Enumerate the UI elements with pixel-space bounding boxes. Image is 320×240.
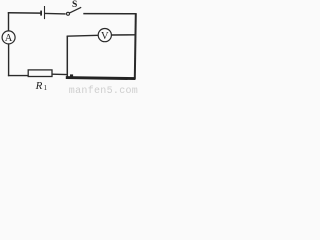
wire resistor to junction: [52, 73, 68, 75]
svg-text:V: V: [101, 31, 109, 42]
wire battery to switch: [45, 12, 66, 15]
voltmeter V: [98, 28, 111, 41]
svg-text:1: 1: [44, 84, 48, 92]
battery positive plate: [44, 6, 46, 19]
wire right vertical: [135, 13, 136, 79]
battery negative plate: [40, 11, 42, 16]
wire left vertical lower: [8, 44, 10, 76]
wire bottom thick: [66, 78, 136, 79]
wire switch to top-right corner: [83, 13, 136, 15]
resistor R1: [28, 70, 52, 77]
switch arm: [70, 7, 82, 13]
wire bottom-left horizontal: [8, 75, 29, 77]
wire voltmeter branch horizontal left: [67, 34, 99, 37]
ammeter A: [2, 31, 15, 44]
junction dot: [70, 74, 73, 77]
wire top-left horizontal: [8, 12, 41, 14]
background: [0, 0, 138, 95]
svg-text:R: R: [35, 80, 43, 92]
wire left vertical upper: [8, 12, 10, 31]
svg-text:A: A: [5, 33, 13, 44]
wire voltmeter branch horizontal right: [111, 34, 135, 36]
wire voltmeter branch vertical: [66, 36, 68, 79]
switch pivot circle: [67, 12, 70, 15]
svg-text:S: S: [72, 0, 77, 10]
svg-text:manfen5.com: manfen5.com: [69, 85, 138, 95]
